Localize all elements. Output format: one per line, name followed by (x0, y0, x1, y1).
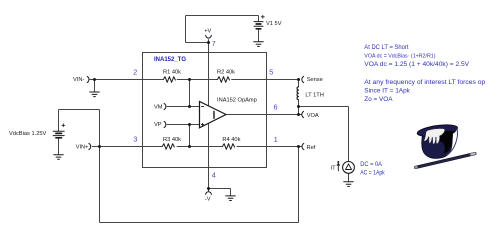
svg-text:R3 40k: R3 40k (163, 137, 181, 143)
svg-text:-V: -V (205, 197, 211, 203)
svg-text:R4 40k: R4 40k (222, 137, 240, 143)
svg-text:7: 7 (212, 39, 216, 48)
svg-text:5: 5 (269, 67, 273, 76)
svg-text:4: 4 (212, 171, 216, 180)
svg-text:R1 40k: R1 40k (163, 70, 181, 76)
svg-text:1: 1 (274, 135, 278, 144)
svg-text:AC = 1Apk: AC = 1Apk (360, 170, 385, 177)
svg-text:2: 2 (133, 67, 137, 76)
svg-text:VOA dc = 1.25 (1 + 40k/40k) =: VOA dc = 1.25 (1 + 40k/40k) = 2.5V (364, 61, 470, 68)
svg-text:At any frequency of interest L: At any frequency of interest LT forces o… (364, 79, 486, 86)
svg-text:VIN+: VIN+ (76, 145, 89, 151)
svg-text:VM: VM (154, 104, 163, 110)
svg-text:VdcBias 1.25V: VdcBias 1.25V (9, 131, 47, 137)
svg-text:Sense: Sense (307, 77, 323, 83)
svg-text:Since IT = 1Apk: Since IT = 1Apk (364, 88, 410, 95)
svg-text:+V: +V (204, 29, 211, 35)
svg-text:INA152 OpAmp: INA152 OpAmp (217, 97, 257, 103)
svg-text:R2 40k: R2 40k (217, 70, 235, 76)
svg-text:VOA: VOA (307, 113, 319, 119)
svg-text:3: 3 (133, 135, 137, 144)
svg-text:INA152_TG: INA152_TG (154, 56, 186, 63)
svg-text:VIN-: VIN- (73, 77, 84, 83)
svg-text:6: 6 (274, 103, 278, 112)
svg-text:At DC LT = Short: At DC LT = Short (364, 44, 408, 51)
svg-text:VOA dc = VdcBias· (1+R2/R1): VOA dc = VdcBias· (1+R2/R1) (364, 54, 435, 60)
svg-text:IT: IT (331, 166, 337, 172)
svg-text:Ref: Ref (307, 145, 316, 151)
svg-text:Zo = VOA: Zo = VOA (364, 96, 393, 103)
svg-text:VP: VP (154, 122, 162, 128)
svg-text:DC = 0A: DC = 0A (360, 161, 382, 168)
svg-text:V1 5V: V1 5V (266, 21, 282, 27)
svg-text:LT 1TH: LT 1TH (305, 93, 323, 99)
